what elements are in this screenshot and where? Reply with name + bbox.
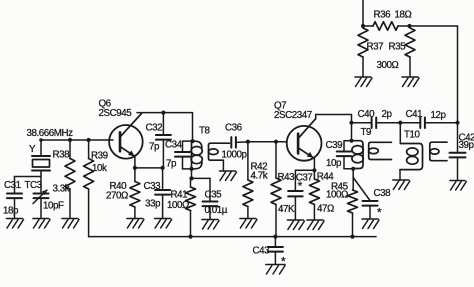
label R41 — [171, 190, 188, 201]
label C43 asterisk — [281, 255, 286, 269]
svg-text:T10: T10 — [404, 130, 421, 141]
transformer T10 secondary link — [430, 142, 447, 161]
capacitor C40 — [372, 117, 377, 128]
resistor R36 — [373, 22, 398, 30]
wire — [236, 141, 248, 144]
wire Q6 collector rail — [137, 112, 193, 114]
resistor R41 — [186, 178, 196, 210]
resistor R44 — [309, 170, 319, 204]
node T8 top — [190, 139, 194, 143]
node R39 top — [87, 138, 91, 142]
svg-text:C32: C32 — [146, 123, 163, 134]
crystal Y — [32, 140, 50, 193]
svg-text:10k: 10k — [92, 163, 107, 174]
svg-text:10pF: 10pF — [43, 201, 64, 212]
resistor R45 — [348, 190, 358, 237]
node Q7 base feed — [246, 140, 250, 144]
resistor R35 — [405, 28, 415, 57]
capacitor C38 — [363, 201, 378, 206]
svg-text:C40: C40 — [358, 109, 376, 120]
resistor R42 — [243, 142, 253, 207]
label C41 value — [431, 110, 447, 121]
transformer T8 primary — [191, 141, 202, 169]
wire — [362, 57, 364, 77]
wire emitter line — [135, 167, 163, 169]
capacitor C34 — [175, 141, 192, 169]
label C40 — [358, 109, 376, 120]
ground (T8 link) — [220, 171, 237, 181]
svg-text:C31: C31 — [4, 180, 21, 191]
node T9 bottom — [351, 167, 355, 171]
wire — [191, 169, 193, 179]
label Q7 type — [274, 110, 312, 121]
svg-text:47K: 47K — [278, 204, 295, 215]
label T8 — [199, 126, 211, 137]
ground (C38) — [362, 219, 379, 229]
ground (TC3) — [33, 219, 50, 229]
wire — [14, 199, 16, 219]
label R40 — [110, 181, 128, 192]
node collector line — [349, 121, 353, 125]
svg-text:100Ω: 100Ω — [167, 200, 189, 211]
svg-text:R41: R41 — [171, 190, 188, 201]
label R44 value — [317, 204, 334, 215]
ground (R37) — [355, 77, 372, 87]
label R37 value 300 — [377, 60, 399, 71]
node C32 top — [161, 111, 165, 115]
capacitor C31 — [7, 194, 22, 199]
capacitor C42 — [450, 123, 466, 181]
svg-text:7p: 7p — [166, 159, 177, 170]
svg-text:T9: T9 — [361, 127, 372, 138]
label C37 — [296, 172, 313, 183]
svg-text:0.01µ: 0.01µ — [205, 205, 228, 216]
transformer T8 secondary link — [209, 143, 230, 160]
wire C38 diagonal — [353, 178, 370, 201]
label R35 — [389, 42, 407, 53]
wire — [40, 199, 42, 219]
node R43 top — [274, 140, 278, 144]
label R38 value — [53, 184, 70, 195]
label R36 value — [395, 10, 412, 21]
label C36 — [225, 123, 243, 134]
label C33 — [144, 181, 162, 192]
node T9 top — [349, 139, 353, 143]
wire — [352, 169, 354, 190]
wire collector down — [192, 113, 194, 142]
label T9 — [361, 127, 372, 138]
node C33 top — [161, 166, 165, 170]
svg-text:C38: C38 — [374, 188, 392, 199]
label C40 value — [382, 109, 393, 120]
ground (C42) — [450, 181, 466, 191]
wire — [376, 122, 420, 124]
svg-text:C35: C35 — [205, 190, 223, 201]
wire — [425, 122, 458, 124]
wire — [313, 204, 315, 220]
label C37 asterisk — [298, 179, 303, 193]
node crystal top — [39, 138, 43, 142]
ground (C31) — [7, 219, 24, 229]
svg-text:R43: R43 — [278, 172, 296, 183]
resistor R37 — [358, 28, 368, 57]
label C38 asterisk — [377, 206, 382, 220]
label Q7 — [274, 101, 286, 112]
wire — [294, 197, 296, 220]
label Y — [29, 144, 36, 155]
wire Q7 emitter — [313, 158, 315, 170]
label R45 — [331, 182, 349, 193]
svg-text:TC3: TC3 — [25, 180, 43, 191]
wire — [351, 115, 353, 141]
wire C39 bottom — [344, 168, 353, 170]
wire junction — [15, 177, 42, 194]
svg-text:18Ω: 18Ω — [395, 10, 412, 21]
label R43 — [278, 172, 296, 183]
trimmer TC3 — [33, 190, 49, 204]
transformer T9 primary — [352, 141, 364, 169]
wire C34 stub — [183, 140, 193, 142]
node T8 bottom — [189, 167, 193, 171]
svg-text:39p: 39p — [459, 140, 474, 151]
svg-text:3.3k: 3.3k — [53, 184, 70, 195]
ground (R38) — [62, 219, 79, 229]
label Q6 type — [99, 108, 133, 119]
label 38.666MHz — [27, 128, 74, 139]
svg-text:C33: C33 — [144, 181, 162, 192]
svg-text:100Ω: 100Ω — [326, 190, 348, 201]
wire bottom bus — [89, 236, 376, 238]
node Q7 emitter — [312, 168, 316, 172]
svg-text:R38: R38 — [53, 150, 71, 161]
label C31 value — [3, 206, 19, 217]
wire R41 to bus — [190, 211, 192, 237]
wire R39 to bus — [88, 189, 90, 237]
wire Q6 emitter — [134, 156, 136, 168]
label C42 value — [459, 140, 474, 151]
svg-text:C36: C36 — [225, 123, 243, 134]
node output — [455, 121, 459, 125]
wire — [352, 122, 372, 124]
wire — [363, 25, 373, 27]
node R43 bus — [273, 235, 277, 239]
label C35 value — [205, 205, 228, 216]
svg-text:12p: 12p — [431, 110, 447, 121]
svg-text:C43: C43 — [253, 246, 271, 257]
label C34 — [165, 140, 183, 151]
wire T10 feed — [399, 123, 401, 144]
wire Q7 base — [248, 141, 287, 143]
svg-text:R37: R37 — [367, 42, 384, 53]
label C35 — [205, 190, 223, 201]
label R36 — [374, 10, 392, 21]
svg-text:R36: R36 — [374, 10, 392, 21]
transformer T10 primary — [400, 144, 423, 170]
svg-text:7p: 7p — [149, 142, 160, 153]
wire — [409, 57, 411, 77]
wire Q7 collector — [316, 115, 352, 119]
ground (C35) — [202, 220, 219, 230]
svg-text:R39: R39 — [91, 151, 108, 162]
label R39 — [91, 151, 108, 162]
svg-text:T8: T8 — [199, 126, 211, 137]
node R41 bus — [188, 235, 192, 239]
resistor R38 — [65, 140, 75, 189]
svg-text:2p: 2p — [382, 109, 393, 120]
label C36 value — [222, 150, 248, 161]
label C38 — [374, 188, 392, 199]
label TC3 value — [43, 201, 64, 212]
node C41 left — [398, 121, 402, 125]
wire — [369, 206, 371, 219]
capacitor C35 — [203, 202, 218, 207]
svg-text:1000p: 1000p — [222, 150, 248, 161]
capacitor C36 — [231, 137, 236, 148]
capacitor C33 — [155, 168, 170, 219]
label Q6 — [99, 99, 112, 110]
svg-text:4.7k: 4.7k — [251, 171, 268, 182]
wire — [134, 207, 136, 219]
capacitor C43 — [268, 237, 283, 265]
ground (R42) — [240, 219, 257, 229]
label C34 value — [166, 159, 177, 170]
svg-text:300Ω: 300Ω — [377, 60, 399, 71]
wire base rail — [41, 139, 113, 141]
label R39 value — [92, 163, 107, 174]
label TC3 — [25, 180, 43, 191]
transformer T9 secondary link — [369, 142, 392, 159]
label C39 — [326, 140, 343, 151]
svg-text:C39: C39 — [326, 140, 343, 151]
label R45 value — [326, 190, 348, 201]
transistor Q6 — [109, 114, 143, 159]
wire Vcc feed — [362, 0, 364, 26]
svg-text:33p: 33p — [145, 199, 161, 210]
svg-text:270Ω: 270Ω — [106, 191, 128, 202]
node R41 top — [189, 176, 193, 180]
ground (C33) — [155, 219, 172, 229]
capacitor C32 — [156, 113, 171, 168]
label C39 value — [326, 158, 342, 169]
label C32 value — [149, 142, 160, 153]
ground (C37) — [287, 220, 304, 230]
label R41 value — [167, 200, 189, 211]
wire link to gnd — [222, 160, 224, 171]
label C33 value — [145, 199, 161, 210]
ground (C43) — [266, 265, 285, 275]
svg-text:2SC2347: 2SC2347 — [274, 110, 312, 121]
svg-text:38.666MHz: 38.666MHz — [27, 128, 74, 139]
wire — [247, 207, 249, 219]
node B (R36 right) — [407, 24, 411, 28]
capacitor C41 — [420, 117, 425, 128]
wire — [398, 25, 410, 27]
label C42 — [459, 133, 474, 144]
resistor R40 — [130, 168, 140, 207]
label C43 — [253, 246, 271, 257]
wire T10 primary to gnd — [399, 170, 401, 180]
wire C39 stub — [344, 140, 352, 142]
label C32 — [146, 123, 163, 134]
wire C35 branch — [192, 178, 211, 201]
capacitor C39 — [337, 141, 352, 169]
wire emitter line — [295, 169, 314, 171]
svg-text:Y: Y — [29, 144, 36, 155]
node R38 top — [68, 138, 72, 142]
transistor Q7 — [287, 119, 322, 161]
svg-text:10p: 10p — [326, 158, 342, 169]
label T10 — [404, 130, 421, 141]
label R37 — [367, 42, 384, 53]
node A (R36 left) — [361, 24, 365, 28]
ground (R35) — [402, 77, 419, 87]
label R43 value — [278, 204, 295, 215]
wire — [209, 206, 211, 219]
svg-text:C34: C34 — [165, 140, 183, 151]
ground (R40) — [127, 219, 144, 229]
label R38 — [53, 150, 71, 161]
wire — [69, 189, 71, 219]
label R42 — [251, 162, 268, 173]
label C31 — [4, 180, 21, 191]
capacitor C37 — [288, 170, 303, 196]
svg-text:C41: C41 — [406, 109, 423, 120]
node R45 bus — [350, 235, 354, 239]
wire right rail down — [457, 26, 459, 123]
ground (T10 primary) — [393, 180, 410, 190]
svg-text:2SC945: 2SC945 — [99, 108, 133, 119]
label R42 value — [251, 171, 268, 182]
label R40 value — [106, 191, 128, 202]
label R44 — [317, 172, 335, 183]
node Q6 emitter — [133, 166, 137, 170]
resistor R43 — [271, 142, 281, 237]
resistor R39 — [84, 140, 94, 189]
ground (R44) — [307, 220, 324, 230]
wire — [410, 25, 458, 27]
svg-text:47Ω: 47Ω — [317, 204, 334, 215]
svg-text:R35: R35 — [389, 42, 407, 53]
svg-text:18p: 18p — [3, 206, 19, 217]
label C41 — [406, 109, 423, 120]
